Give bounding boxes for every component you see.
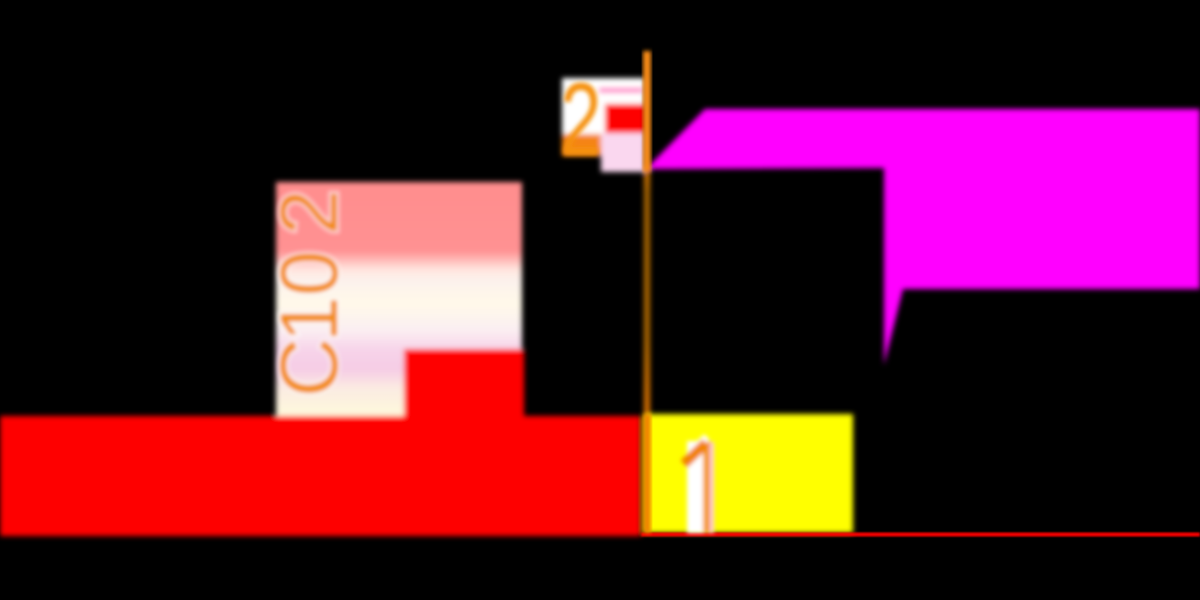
pin 2 number glyph block (orange) — [562, 134, 605, 156]
wire (red net, lower horizontal) — [0, 416, 641, 536]
pin 2 (vertical pin line, bright segment) — [643, 51, 651, 172]
pin number 1 (orange stem edge) — [702, 440, 710, 533]
wire (red net segment, upper) — [404, 349, 524, 417]
svg-text:2: 2 — [560, 62, 602, 178]
wire (red stub near pin 2) — [605, 104, 645, 134]
svg-text:0: 0 — [264, 250, 355, 296]
capacitor C102 label background field — [276, 182, 522, 416]
reference designator C102 (white halo) — [264, 189, 355, 397]
capacitor body (yellow fill) — [644, 414, 853, 533]
pin 2 label background (white) — [562, 78, 645, 134]
wire (thin red net line to the right) — [641, 533, 1200, 537]
wire (highlighted net, magenta) — [646, 109, 1200, 365]
pin number 1 (orange flag) — [684, 443, 706, 464]
pin 1 (vertical pin line inside body) — [644, 414, 652, 533]
svg-text:1: 1 — [264, 296, 355, 342]
pin number 1 (white flag halo) — [692, 437, 707, 451]
pin number 1 (white core) — [687, 441, 703, 533]
pin 2 (vertical pin line, dark segment) — [644, 168, 650, 415]
node marker (pink stripe) — [599, 88, 643, 94]
reference designator C102 (rotated) — [264, 189, 355, 397]
svg-text:C: C — [264, 338, 355, 397]
node highlight (pale pink) — [601, 133, 645, 172]
pin number 1 (pink fade) — [710, 442, 714, 533]
svg-text:2: 2 — [264, 189, 355, 235]
